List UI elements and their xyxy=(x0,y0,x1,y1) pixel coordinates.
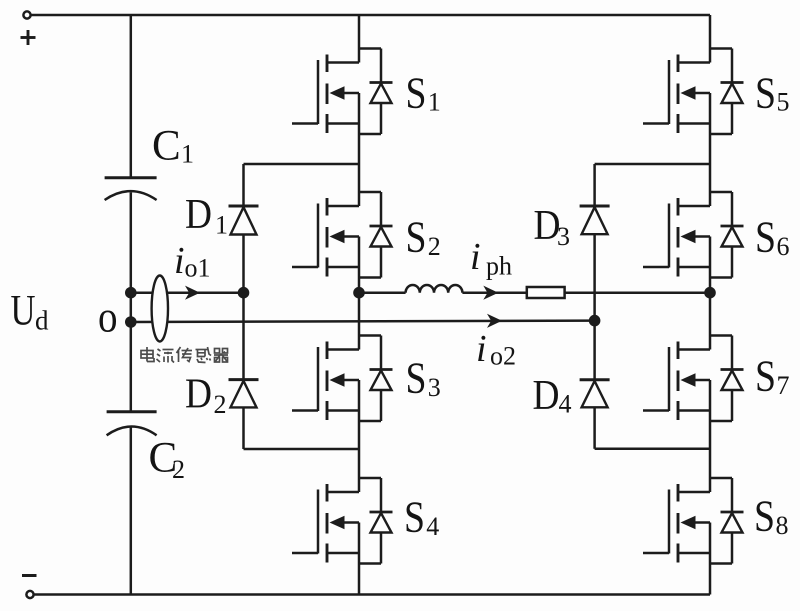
node o xyxy=(125,316,137,328)
transistor S5 xyxy=(643,49,744,135)
label S1 xyxy=(406,68,441,117)
svg-text:1: 1 xyxy=(181,140,194,169)
wire right leg vertical xyxy=(709,15,712,595)
transistor S1 xyxy=(292,49,393,135)
svg-text:7: 7 xyxy=(777,371,790,400)
wire inductor to leg xyxy=(462,291,710,294)
svg-text:S: S xyxy=(406,354,427,403)
wire left DC bus lower xyxy=(130,428,133,595)
arrow io1 xyxy=(185,286,200,300)
svg-text:2: 2 xyxy=(172,455,185,484)
current sensor ellipse xyxy=(152,276,168,342)
svg-text:5: 5 xyxy=(777,88,790,117)
diode D3 xyxy=(580,206,610,234)
transistor S4 xyxy=(292,478,393,564)
wire neutral lower io2 xyxy=(131,321,595,322)
label D2 xyxy=(185,372,227,420)
transistor S8 xyxy=(643,478,744,564)
svg-text:8: 8 xyxy=(776,511,789,540)
transistor S7 xyxy=(643,336,744,422)
label S4 xyxy=(404,493,439,542)
wire top rail xyxy=(31,14,710,17)
transistor S3 xyxy=(292,336,393,422)
svg-text:S: S xyxy=(755,352,776,401)
label S5 xyxy=(755,68,790,117)
node left leg output xyxy=(353,287,365,299)
label minus xyxy=(22,574,37,577)
label Ud xyxy=(11,288,50,336)
wire neutral upper io1 xyxy=(131,291,244,294)
label C1 xyxy=(152,123,194,170)
svg-text:1: 1 xyxy=(428,88,441,117)
svg-text:S: S xyxy=(755,213,776,262)
label plus xyxy=(21,30,36,45)
wire D1-D2 vertical xyxy=(242,164,245,449)
label S3 xyxy=(406,354,441,403)
wire bottom rail xyxy=(34,593,710,596)
arrow iph xyxy=(483,286,498,300)
label S2 xyxy=(406,213,441,262)
svg-text:1: 1 xyxy=(215,211,228,240)
diode D4 xyxy=(580,380,610,408)
capacitor C2 xyxy=(107,412,157,436)
node neutral upper xyxy=(125,287,137,299)
wire left leg vertical xyxy=(358,15,361,595)
svg-text:d: d xyxy=(35,306,49,336)
wire phase output xyxy=(359,291,406,294)
label D4 xyxy=(533,373,572,419)
label S7 xyxy=(755,352,790,401)
capacitor C1 xyxy=(105,178,157,200)
resistor xyxy=(527,287,565,298)
svg-text:4: 4 xyxy=(559,390,572,419)
wire left DC bus upper xyxy=(130,15,133,178)
svg-text:S: S xyxy=(755,68,776,117)
svg-text:S: S xyxy=(406,213,427,262)
svg-text:C: C xyxy=(152,123,181,170)
positive terminal xyxy=(23,11,30,18)
label D1 xyxy=(185,192,228,239)
wire D1 top link xyxy=(244,163,360,166)
arrow io2 xyxy=(487,314,502,328)
wire D4 bottom link xyxy=(595,448,710,451)
node D1-D2 junction xyxy=(238,287,250,299)
inductor xyxy=(406,285,463,293)
label S8 xyxy=(754,492,789,541)
diode D2 xyxy=(229,380,259,408)
wire left DC bus middle xyxy=(130,193,133,412)
label D3 xyxy=(534,203,571,251)
svg-text:D: D xyxy=(533,373,560,419)
svg-text:S: S xyxy=(404,493,425,542)
svg-text:3: 3 xyxy=(428,373,441,402)
svg-text:D: D xyxy=(185,192,212,238)
svg-text:o: o xyxy=(98,293,118,342)
svg-text:6: 6 xyxy=(777,232,790,261)
transistor S2 xyxy=(292,192,393,278)
wire D3 top link xyxy=(595,163,710,166)
diode D1 xyxy=(229,206,259,235)
wire D2 bottom link xyxy=(244,448,360,451)
node right leg output xyxy=(704,287,716,299)
svg-text:2: 2 xyxy=(428,232,441,261)
wire D3-D4 vertical xyxy=(593,164,596,449)
negative terminal xyxy=(26,591,33,598)
svg-text:2: 2 xyxy=(214,390,227,419)
label C2 xyxy=(149,435,186,485)
svg-text:3: 3 xyxy=(557,222,570,251)
label current-sensor (dianliu chuanganqi) xyxy=(141,347,228,363)
svg-text:S: S xyxy=(754,492,775,541)
transistor S6 xyxy=(643,192,744,278)
svg-text:4: 4 xyxy=(426,512,439,541)
svg-text:U: U xyxy=(11,288,36,335)
svg-text:S: S xyxy=(406,68,427,117)
svg-text:D: D xyxy=(185,372,212,418)
label S6 xyxy=(755,213,790,262)
node D3-D4 junction xyxy=(589,315,601,327)
